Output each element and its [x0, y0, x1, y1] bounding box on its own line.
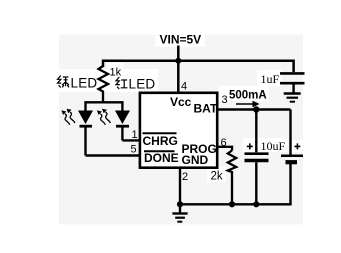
wire pin2 GND [179, 168, 181, 205]
svg-text:CHRG: CHRG [143, 134, 178, 148]
svg-text:6: 6 [221, 137, 227, 149]
LED D1 green: diode symbol [78, 111, 93, 156]
svg-text:2k: 2k [211, 171, 223, 183]
ground symbol 1uF [284, 94, 301, 102]
battery BT1 [281, 110, 303, 163]
wire BAT pin3 [218, 108, 291, 110]
white patch behind VIN label [155, 30, 205, 47]
LED D2 red: diode symbol [115, 111, 130, 141]
white patch behind 2k label [207, 167, 226, 182]
LED D2 red: emission arrows [97, 109, 111, 125]
svg-text:1uF: 1uF [261, 72, 280, 86]
label + of 10uF [247, 143, 253, 149]
wire PROG pin6 [218, 147, 233, 151]
svg-text:3: 3 [222, 94, 228, 106]
svg-text:1: 1 [132, 129, 138, 141]
svg-text:DONE: DONE [144, 151, 179, 165]
svg-text:VIN=5V: VIN=5V [160, 33, 202, 47]
svg-text:BAT: BAT [194, 102, 218, 116]
svg-text:GND: GND [182, 153, 209, 167]
white patch behind 10uF label [243, 138, 288, 152]
current arrow 500mA [236, 101, 260, 108]
label + of battery [294, 143, 300, 149]
LED D1 green: emission arrows [61, 109, 75, 125]
op-amp U1 charger IC box [140, 93, 217, 168]
resistor R1 1k zigzag [99, 66, 109, 102]
capacitor C1 1uF [280, 73, 305, 92]
capacitor C2 10uF [245, 110, 269, 205]
node GND junction [177, 201, 183, 207]
wire CHRG pin1 [122, 139, 140, 141]
ground symbol main [172, 204, 187, 221]
wire bottom rail [180, 164, 291, 205]
svg-text:10uF: 10uF [261, 139, 286, 153]
white patch behind battery plus [292, 140, 303, 152]
label red LED [116, 77, 128, 89]
wire top rail VIN [103, 61, 294, 72]
svg-text:LED: LED [129, 77, 156, 92]
svg-text:Vcc: Vcc [170, 95, 192, 109]
IC U1 body fill [140, 93, 217, 168]
node VIN junction [175, 58, 181, 64]
white patch behind 1k label [107, 63, 123, 77]
wire VIN stub [177, 46, 180, 62]
node 2k junction [229, 201, 235, 207]
svg-text:2: 2 [182, 171, 188, 183]
svg-text:LED: LED [71, 76, 98, 91]
svg-text:4: 4 [181, 81, 187, 93]
wire DONE pin5 [86, 154, 141, 156]
white patch behind 500mA label [219, 86, 269, 101]
schematic panel [59, 35, 303, 225]
label DONE with overline [144, 151, 179, 165]
wire LED branch [86, 102, 123, 110]
resistor R2 2k zigzag [228, 151, 236, 205]
svg-text:1k: 1k [110, 67, 122, 79]
white patch behind 1uF label [257, 70, 282, 86]
svg-text:5: 5 [131, 144, 137, 156]
node BAT junction [253, 106, 259, 112]
label green LED [58, 76, 70, 88]
wire Vcc pin4 [177, 61, 180, 94]
node 10uF junction [253, 201, 259, 207]
white patch behind LED labels [55, 69, 158, 92]
svg-text:500mA: 500mA [229, 90, 267, 102]
label CHRG with overline [143, 133, 178, 148]
